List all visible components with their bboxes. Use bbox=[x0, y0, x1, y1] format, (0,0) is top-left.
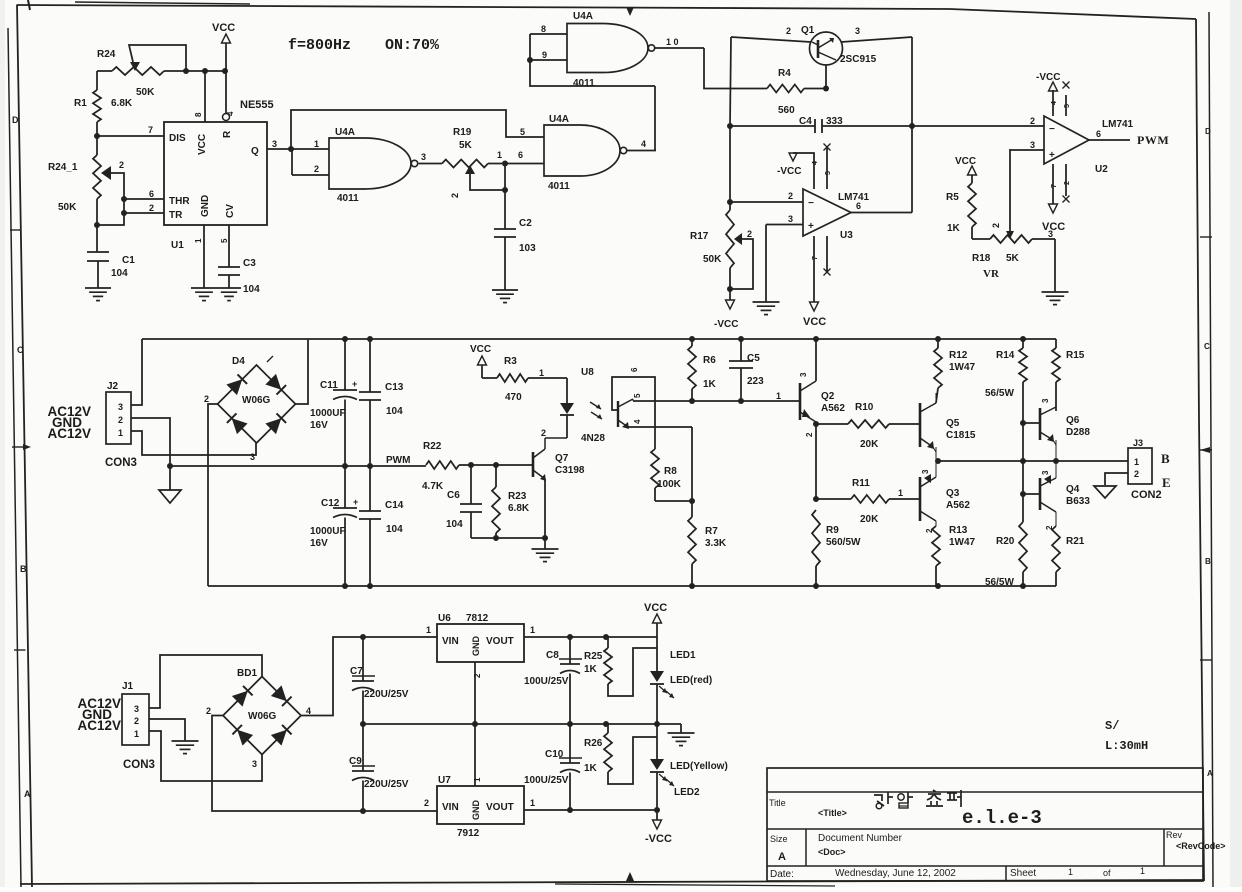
svg-text:1K: 1K bbox=[584, 763, 598, 774]
svg-text:50K: 50K bbox=[703, 254, 722, 265]
svg-text:6.8K: 6.8K bbox=[508, 503, 530, 514]
svg-text:ON:70%: ON:70% bbox=[385, 37, 440, 54]
svg-text:GND: GND bbox=[200, 195, 211, 217]
svg-text:<Title>: <Title> bbox=[818, 808, 847, 818]
svg-text:U4A: U4A bbox=[573, 11, 593, 22]
svg-text:56/5W: 56/5W bbox=[985, 577, 1014, 588]
svg-text:9: 9 bbox=[542, 50, 547, 60]
svg-text:R24: R24 bbox=[97, 49, 116, 60]
svg-text:R8: R8 bbox=[664, 466, 677, 477]
svg-text:2: 2 bbox=[134, 716, 139, 726]
svg-text:−: − bbox=[808, 198, 814, 209]
svg-text:R3: R3 bbox=[504, 356, 517, 367]
svg-text:+: + bbox=[353, 497, 358, 507]
svg-text:C6: C6 bbox=[447, 490, 460, 501]
svg-text:7: 7 bbox=[148, 125, 153, 135]
svg-text:R19: R19 bbox=[453, 127, 472, 138]
svg-text:1: 1 bbox=[473, 777, 482, 782]
svg-text:2: 2 bbox=[1045, 525, 1054, 530]
svg-text:AC12V: AC12V bbox=[47, 426, 91, 441]
svg-text:2: 2 bbox=[424, 798, 429, 808]
svg-text:U2: U2 bbox=[1095, 164, 1108, 175]
svg-text:Wednesday, June 12, 2002: Wednesday, June 12, 2002 bbox=[835, 868, 956, 879]
svg-text:560/5W: 560/5W bbox=[826, 537, 861, 548]
svg-text:3: 3 bbox=[134, 704, 139, 714]
svg-text:R14: R14 bbox=[996, 350, 1015, 361]
svg-text:6: 6 bbox=[1096, 129, 1101, 139]
svg-text:Sheet: Sheet bbox=[1010, 868, 1036, 879]
svg-text:PWM: PWM bbox=[386, 455, 410, 466]
svg-text:1000UF: 1000UF bbox=[310, 408, 346, 419]
svg-text:Title: Title bbox=[769, 798, 786, 808]
svg-text:LED(red): LED(red) bbox=[670, 675, 712, 686]
svg-text:A: A bbox=[1207, 769, 1213, 778]
svg-text:2: 2 bbox=[541, 428, 546, 438]
svg-text:Q5: Q5 bbox=[946, 418, 960, 429]
svg-text:C4: C4 bbox=[799, 116, 812, 127]
svg-text:5: 5 bbox=[520, 127, 525, 137]
svg-text:R20: R20 bbox=[996, 536, 1015, 547]
svg-text:R23: R23 bbox=[508, 491, 527, 502]
svg-text:2: 2 bbox=[314, 164, 319, 174]
svg-text:-VCC: -VCC bbox=[714, 319, 738, 330]
svg-text:8: 8 bbox=[541, 24, 546, 34]
svg-text:B: B bbox=[1205, 557, 1211, 566]
svg-text:LED1: LED1 bbox=[670, 650, 696, 661]
svg-text:GND: GND bbox=[471, 636, 481, 657]
svg-text:-VCC: -VCC bbox=[645, 833, 672, 845]
svg-text:of: of bbox=[1103, 868, 1111, 878]
svg-text:e.l.e-3: e.l.e-3 bbox=[962, 807, 1042, 829]
svg-text:W06G: W06G bbox=[242, 395, 271, 406]
svg-text:A562: A562 bbox=[821, 403, 845, 414]
svg-text:U8: U8 bbox=[581, 367, 594, 378]
svg-text:3: 3 bbox=[272, 139, 277, 149]
svg-text:Q: Q bbox=[251, 146, 259, 157]
svg-text:3.3K: 3.3K bbox=[705, 538, 727, 549]
svg-text:Date:: Date: bbox=[770, 869, 794, 880]
svg-text:A562: A562 bbox=[946, 500, 970, 511]
svg-text:R26: R26 bbox=[584, 738, 603, 749]
svg-text:C: C bbox=[17, 345, 24, 355]
svg-text:LED2: LED2 bbox=[674, 787, 700, 798]
svg-text:R11: R11 bbox=[852, 478, 870, 489]
svg-text:VOUT: VOUT bbox=[486, 636, 514, 647]
svg-text:VCC: VCC bbox=[197, 134, 208, 155]
svg-text:Document Number: Document Number bbox=[818, 833, 903, 844]
svg-text:5: 5 bbox=[1064, 104, 1071, 108]
svg-text:Q4: Q4 bbox=[1066, 484, 1080, 495]
svg-text:2: 2 bbox=[1030, 116, 1035, 126]
svg-text:8: 8 bbox=[194, 112, 203, 117]
svg-text:4: 4 bbox=[641, 139, 646, 149]
svg-text:R: R bbox=[222, 130, 233, 138]
svg-text:1: 1 bbox=[194, 238, 203, 243]
svg-text:C10: C10 bbox=[545, 749, 564, 760]
svg-text:Rev: Rev bbox=[1166, 830, 1183, 840]
svg-text:GND: GND bbox=[471, 800, 481, 821]
svg-text:Q2: Q2 bbox=[821, 391, 835, 402]
svg-text:B: B bbox=[1161, 451, 1170, 466]
svg-text:C8: C8 bbox=[546, 650, 559, 661]
svg-text:VCC: VCC bbox=[644, 602, 667, 614]
svg-text:TR: TR bbox=[169, 210, 183, 221]
svg-text:Q1: Q1 bbox=[801, 25, 815, 36]
svg-text:U1: U1 bbox=[171, 240, 184, 251]
svg-text:2: 2 bbox=[204, 394, 209, 404]
svg-text:220U/25V: 220U/25V bbox=[364, 779, 409, 790]
svg-text:R10: R10 bbox=[855, 402, 874, 413]
svg-text:104: 104 bbox=[386, 406, 403, 417]
svg-text:220U/25V: 220U/25V bbox=[364, 689, 409, 700]
svg-text:−: − bbox=[1049, 124, 1055, 135]
svg-text:7812: 7812 bbox=[466, 613, 489, 624]
svg-text:W06G: W06G bbox=[248, 711, 277, 722]
svg-text:1: 1 bbox=[118, 428, 123, 438]
svg-text:2: 2 bbox=[1064, 181, 1071, 185]
svg-text:1K: 1K bbox=[584, 664, 598, 675]
svg-text:5K: 5K bbox=[1006, 253, 1020, 264]
svg-text:VCC: VCC bbox=[803, 316, 826, 328]
svg-text:U7: U7 bbox=[438, 775, 451, 786]
svg-text:3: 3 bbox=[1048, 229, 1053, 239]
svg-text:3: 3 bbox=[250, 452, 255, 462]
svg-text:A: A bbox=[24, 789, 31, 799]
svg-text:R21: R21 bbox=[1066, 536, 1085, 547]
svg-text:1K: 1K bbox=[947, 223, 961, 234]
svg-text:2: 2 bbox=[450, 193, 460, 198]
svg-text:CON3: CON3 bbox=[123, 759, 155, 771]
svg-text:3: 3 bbox=[1030, 140, 1035, 150]
svg-text:C1: C1 bbox=[122, 255, 135, 266]
svg-text:50K: 50K bbox=[136, 87, 155, 98]
svg-text:103: 103 bbox=[519, 243, 536, 254]
svg-text:7: 7 bbox=[1051, 184, 1058, 188]
svg-text:2: 2 bbox=[118, 415, 123, 425]
svg-text:R25: R25 bbox=[584, 651, 603, 662]
svg-text:1: 1 bbox=[1140, 866, 1145, 876]
svg-text:CON3: CON3 bbox=[105, 457, 137, 469]
svg-text:R17: R17 bbox=[690, 231, 709, 242]
svg-text:3: 3 bbox=[1041, 470, 1050, 475]
svg-text:R5: R5 bbox=[946, 192, 959, 203]
svg-text:+: + bbox=[1049, 150, 1055, 161]
svg-text:4011: 4011 bbox=[337, 193, 359, 204]
svg-text:C2: C2 bbox=[519, 218, 532, 229]
svg-text:R18: R18 bbox=[972, 253, 991, 264]
svg-text:2: 2 bbox=[119, 160, 124, 170]
svg-text:VOUT: VOUT bbox=[486, 802, 514, 813]
svg-text:1: 1 bbox=[1134, 457, 1139, 467]
svg-text:16V: 16V bbox=[310, 538, 328, 549]
svg-text:2: 2 bbox=[786, 26, 791, 36]
svg-text:VIN: VIN bbox=[442, 636, 459, 647]
svg-text:5: 5 bbox=[633, 393, 642, 398]
svg-text:VCC: VCC bbox=[212, 22, 235, 34]
svg-text:104: 104 bbox=[446, 519, 463, 530]
svg-text:D: D bbox=[12, 115, 19, 125]
svg-text:100U/25V: 100U/25V bbox=[524, 775, 569, 786]
svg-text:2: 2 bbox=[149, 203, 154, 213]
svg-text:Q6: Q6 bbox=[1066, 415, 1080, 426]
svg-text:J2: J2 bbox=[107, 381, 119, 392]
svg-text:1: 1 bbox=[497, 150, 502, 160]
svg-text:4: 4 bbox=[306, 706, 311, 716]
svg-text:2: 2 bbox=[1134, 469, 1139, 479]
svg-text:R1: R1 bbox=[74, 98, 87, 109]
svg-text:470: 470 bbox=[505, 392, 522, 403]
svg-text:A: A bbox=[778, 851, 786, 863]
svg-text:4: 4 bbox=[1051, 101, 1058, 105]
svg-text:6: 6 bbox=[149, 189, 154, 199]
svg-text:VCC: VCC bbox=[955, 156, 976, 167]
svg-text:CV: CV bbox=[225, 204, 236, 218]
svg-text:104: 104 bbox=[243, 284, 260, 295]
svg-text:6: 6 bbox=[630, 367, 639, 372]
svg-text:7912: 7912 bbox=[457, 828, 480, 839]
svg-text:50K: 50K bbox=[58, 202, 77, 213]
svg-text:1W47: 1W47 bbox=[949, 362, 976, 373]
svg-text:DIS: DIS bbox=[169, 133, 186, 144]
svg-text:3: 3 bbox=[799, 372, 808, 377]
svg-text:2: 2 bbox=[805, 432, 814, 437]
svg-text:6: 6 bbox=[518, 150, 523, 160]
svg-text:1: 1 bbox=[426, 625, 431, 635]
svg-text:3: 3 bbox=[118, 402, 123, 412]
svg-text:S/: S/ bbox=[1105, 719, 1119, 733]
svg-text:Q7: Q7 bbox=[555, 453, 569, 464]
svg-text:Q3: Q3 bbox=[946, 488, 960, 499]
svg-text:20K: 20K bbox=[860, 514, 879, 525]
svg-text:5K: 5K bbox=[459, 140, 473, 151]
svg-text:C14: C14 bbox=[385, 500, 404, 511]
svg-text:-VCC: -VCC bbox=[777, 166, 801, 177]
svg-text:4.7K: 4.7K bbox=[422, 481, 444, 492]
svg-text:L:30mH: L:30mH bbox=[1105, 739, 1148, 753]
svg-text:560: 560 bbox=[778, 105, 795, 116]
svg-text:1: 1 bbox=[530, 798, 535, 808]
svg-text:3: 3 bbox=[788, 214, 793, 224]
svg-text:2: 2 bbox=[991, 223, 1001, 228]
svg-text:U4A: U4A bbox=[335, 127, 355, 138]
svg-text:-VCC: -VCC bbox=[1036, 72, 1060, 83]
svg-text:2: 2 bbox=[747, 229, 752, 239]
svg-text:C: C bbox=[1204, 342, 1210, 351]
svg-text:1: 1 bbox=[134, 729, 139, 739]
svg-text:7: 7 bbox=[812, 256, 819, 260]
svg-text:333: 333 bbox=[826, 116, 843, 127]
svg-text:56/5W: 56/5W bbox=[985, 388, 1014, 399]
svg-text:C11: C11 bbox=[320, 380, 338, 391]
svg-text:4: 4 bbox=[633, 419, 642, 424]
svg-text:+: + bbox=[352, 379, 357, 389]
svg-text:D288: D288 bbox=[1066, 427, 1090, 438]
svg-text:16V: 16V bbox=[310, 420, 328, 431]
svg-text:1: 1 bbox=[314, 139, 319, 149]
svg-text:1: 1 bbox=[539, 368, 544, 378]
svg-text:1000UF: 1000UF bbox=[310, 526, 346, 537]
svg-text:1: 1 bbox=[898, 488, 903, 498]
svg-text:R4: R4 bbox=[778, 68, 791, 79]
svg-text:C9: C9 bbox=[349, 756, 362, 767]
svg-text:1: 1 bbox=[1068, 867, 1073, 877]
svg-text:C3198: C3198 bbox=[555, 465, 585, 476]
svg-text:PWM: PWM bbox=[1137, 133, 1169, 147]
svg-text:4: 4 bbox=[812, 161, 819, 165]
svg-text:1: 1 bbox=[776, 391, 781, 401]
svg-text:R15: R15 bbox=[1066, 350, 1085, 361]
svg-text:U3: U3 bbox=[840, 230, 853, 241]
svg-text:LED(Yellow): LED(Yellow) bbox=[670, 761, 728, 772]
svg-text:VR: VR bbox=[983, 268, 1000, 280]
svg-text:D4: D4 bbox=[232, 356, 245, 367]
svg-text:6.8K: 6.8K bbox=[111, 98, 133, 109]
svg-text:BD1: BD1 bbox=[237, 668, 257, 679]
svg-text:R22: R22 bbox=[423, 441, 442, 452]
svg-text:+: + bbox=[808, 221, 814, 232]
svg-text:VCC: VCC bbox=[470, 344, 491, 355]
svg-text:5: 5 bbox=[220, 238, 229, 243]
svg-text:E: E bbox=[1162, 475, 1171, 490]
svg-text:3: 3 bbox=[855, 26, 860, 36]
svg-text:4011: 4011 bbox=[548, 181, 570, 192]
svg-text:C3: C3 bbox=[243, 258, 256, 269]
svg-text:2: 2 bbox=[206, 706, 211, 716]
svg-text:VIN: VIN bbox=[442, 802, 459, 813]
svg-text:LM741: LM741 bbox=[1102, 119, 1134, 130]
svg-text:C12: C12 bbox=[321, 498, 340, 509]
svg-text:4011: 4011 bbox=[573, 78, 595, 89]
svg-text:3: 3 bbox=[421, 152, 426, 162]
svg-text:LM741: LM741 bbox=[838, 192, 870, 203]
svg-text:R12: R12 bbox=[949, 350, 968, 361]
svg-text:CON2: CON2 bbox=[1131, 489, 1162, 501]
svg-text:R13: R13 bbox=[949, 525, 968, 536]
svg-text:1K: 1K bbox=[703, 379, 717, 390]
svg-text:100K: 100K bbox=[657, 479, 682, 490]
svg-text:B: B bbox=[20, 564, 27, 574]
svg-text:R7: R7 bbox=[705, 526, 718, 537]
svg-text:104: 104 bbox=[386, 524, 403, 535]
svg-text:R6: R6 bbox=[703, 355, 716, 366]
svg-text:B633: B633 bbox=[1066, 496, 1090, 507]
svg-text:U4A: U4A bbox=[549, 114, 569, 125]
svg-text:<RevCode>: <RevCode> bbox=[1176, 841, 1226, 851]
svg-text:5: 5 bbox=[825, 171, 832, 175]
svg-text:f=800Hz: f=800Hz bbox=[288, 37, 351, 54]
svg-text:3: 3 bbox=[252, 759, 257, 769]
svg-text:2: 2 bbox=[473, 673, 482, 678]
svg-text:C5: C5 bbox=[747, 353, 760, 364]
svg-text:1W47: 1W47 bbox=[949, 537, 976, 548]
svg-text:J3: J3 bbox=[1133, 438, 1143, 448]
svg-text:THR: THR bbox=[169, 196, 190, 207]
svg-text:3: 3 bbox=[921, 469, 930, 474]
svg-text:AC12V: AC12V bbox=[77, 718, 121, 733]
svg-text:20K: 20K bbox=[860, 439, 879, 450]
svg-text:D: D bbox=[1205, 127, 1211, 136]
svg-text:3: 3 bbox=[1041, 398, 1050, 403]
svg-text:4N28: 4N28 bbox=[581, 433, 605, 444]
svg-text:C7: C7 bbox=[350, 666, 363, 677]
svg-text:C1815: C1815 bbox=[946, 430, 976, 441]
svg-text:2: 2 bbox=[788, 191, 793, 201]
svg-text:1 0: 1 0 bbox=[666, 37, 679, 47]
svg-text:J1: J1 bbox=[122, 681, 134, 692]
svg-text:U6: U6 bbox=[438, 613, 451, 624]
svg-text:223: 223 bbox=[747, 376, 764, 387]
svg-text:<Doc>: <Doc> bbox=[818, 847, 846, 857]
svg-text:NE555: NE555 bbox=[240, 99, 274, 111]
svg-text:104: 104 bbox=[111, 268, 128, 279]
svg-text:1: 1 bbox=[530, 625, 535, 635]
svg-text:C13: C13 bbox=[385, 382, 404, 393]
svg-text:VCC: VCC bbox=[1042, 221, 1065, 233]
svg-text:100U/25V: 100U/25V bbox=[524, 676, 569, 687]
svg-text:R24_1: R24_1 bbox=[48, 162, 78, 173]
svg-text:2SC915: 2SC915 bbox=[840, 54, 877, 65]
svg-text:Size: Size bbox=[770, 834, 788, 844]
svg-text:R9: R9 bbox=[826, 525, 839, 536]
